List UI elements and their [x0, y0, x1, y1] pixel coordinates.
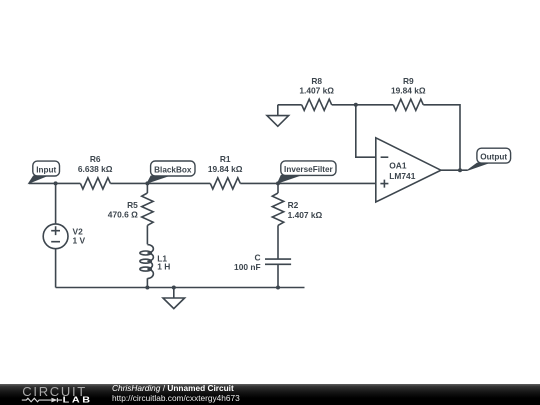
- svg-text:R8: R8: [311, 76, 322, 86]
- voltage source V2: [43, 224, 68, 249]
- resistor R8: [302, 99, 332, 110]
- ground (bottom): [163, 288, 185, 309]
- svg-text:100 nF: 100 nF: [234, 262, 261, 272]
- node dot: BlackBox junction: [145, 181, 149, 185]
- node dot: feedback node above op-amp: [354, 103, 358, 107]
- svg-text:19.84 kΩ: 19.84 kΩ: [208, 164, 243, 174]
- inductor L1: [147, 245, 153, 279]
- svg-text:OA1: OA1: [389, 161, 407, 171]
- op-amp minus symbol: [381, 156, 389, 158]
- svg-text:R6: R6: [90, 154, 101, 164]
- svg-text:BlackBox: BlackBox: [154, 165, 192, 174]
- svg-text:1.407 kΩ: 1.407 kΩ: [299, 86, 334, 96]
- flag Output box: [477, 148, 511, 163]
- wire: feedback node down to op-amp minus input: [356, 105, 376, 157]
- wire: BlackBox segment: [110, 182, 210, 184]
- svg-text:R2: R2: [288, 200, 299, 210]
- svg-text:C: C: [255, 252, 261, 262]
- wire: L1 to bottom rail: [146, 278, 148, 287]
- svg-text:19.84 kΩ: 19.84 kΩ: [391, 86, 426, 96]
- wire: bottom rail: [56, 287, 305, 289]
- wire: top feedback rail at y=104.8: [278, 104, 302, 106]
- node dot: L1 bottom: [145, 286, 149, 290]
- wire: InverseFilter segment to op-amp plus input: [240, 182, 375, 184]
- wire: R9 to right corner and down to output node: [423, 105, 460, 170]
- resistor R2: [272, 193, 283, 225]
- flag InverseFilter box: [281, 161, 336, 176]
- svg-text:6.638 kΩ: 6.638 kΩ: [78, 164, 113, 174]
- credit text: [112, 384, 240, 402]
- wire: R5 to L1: [146, 225, 148, 244]
- flag InverseFilter pointer: [278, 175, 300, 183]
- capacitor C: [265, 259, 291, 264]
- wire: V2 branch down from Input node: [55, 183, 57, 224]
- flag Output pointer: [468, 163, 489, 170]
- resistor R5: [142, 193, 153, 225]
- node dot: output node: [458, 168, 462, 172]
- flag Input pointer: [29, 176, 47, 183]
- flag BlackBox box: [151, 161, 195, 176]
- node dot: InverseFilter junction: [276, 181, 280, 185]
- CircuitLab logo: [0, 383, 110, 405]
- node dot: C bottom: [276, 286, 280, 290]
- svg-text:R1: R1: [220, 154, 231, 164]
- svg-text:1 H: 1 H: [157, 261, 170, 271]
- resistor R1: [210, 178, 240, 189]
- flag BlackBox pointer: [147, 176, 168, 183]
- svg-text:1 V: 1 V: [73, 236, 86, 246]
- footer bar: [0, 384, 540, 405]
- node dot: Input/V2 junction: [54, 181, 58, 185]
- op-amp plus symbol: [380, 180, 388, 188]
- svg-text:1.407 kΩ: 1.407 kΩ: [288, 210, 323, 220]
- wire: V2 to bottom rail: [55, 249, 57, 288]
- op-amp OA1 triangle: [376, 138, 441, 202]
- wire: op-amp output to Output flag: [441, 169, 468, 171]
- wire: C to bottom rail: [277, 264, 279, 287]
- resistor R9: [393, 99, 423, 110]
- svg-text:LM741: LM741: [389, 171, 415, 181]
- wire: R2 to capacitor C: [277, 225, 279, 259]
- svg-text:Input: Input: [36, 165, 56, 174]
- svg-text:Output: Output: [480, 153, 507, 162]
- svg-text:LAB: LAB: [63, 395, 93, 404]
- resistor R6: [80, 178, 110, 189]
- wire: R2 branch stub: [277, 183, 279, 193]
- flag Input box: [33, 161, 60, 176]
- svg-text:R9: R9: [403, 76, 414, 86]
- svg-text:InverseFilter: InverseFilter: [284, 165, 334, 174]
- wire: main horizontal net at y=183.4: [29, 182, 81, 184]
- ground (top left): [267, 105, 289, 127]
- wire: R8 to R9: [332, 104, 394, 106]
- svg-text:470.6 Ω: 470.6 Ω: [108, 210, 138, 220]
- wire: R5 branch stub: [146, 183, 148, 193]
- node dot: ground bottom: [172, 286, 176, 290]
